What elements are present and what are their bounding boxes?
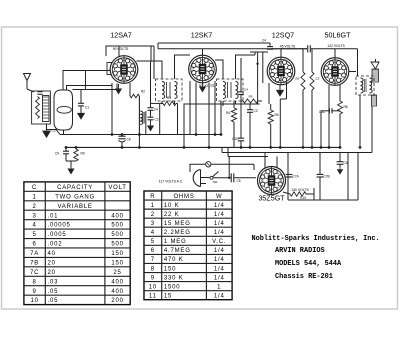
svg-text:1500: 1500 xyxy=(164,284,181,290)
svg-text:5: 5 xyxy=(33,232,37,238)
svg-text:20: 20 xyxy=(48,260,56,266)
svg-text:1/4: 1/4 xyxy=(214,257,225,263)
svg-text:.05: .05 xyxy=(48,298,59,304)
svg-text:C10: C10 xyxy=(232,137,238,141)
svg-text:.0005: .0005 xyxy=(48,232,67,238)
svg-text:8: 8 xyxy=(33,279,37,285)
svg-text:1/4: 1/4 xyxy=(214,266,225,272)
svg-text:15: 15 xyxy=(164,293,172,299)
svg-text:1/4: 1/4 xyxy=(214,230,225,236)
svg-text:1: 1 xyxy=(151,203,155,209)
svg-text:9: 9 xyxy=(33,289,37,295)
svg-text:90 VOLTS: 90 VOLTS xyxy=(113,47,129,51)
svg-text:12SK7: 12SK7 xyxy=(191,31,213,40)
svg-text:6: 6 xyxy=(33,242,37,248)
svg-text:1/4: 1/4 xyxy=(214,212,225,218)
svg-text:.00005: .00005 xyxy=(48,223,71,229)
svg-text:150: 150 xyxy=(164,266,176,272)
svg-text:.01: .01 xyxy=(48,213,59,219)
svg-text:3: 3 xyxy=(151,221,155,227)
svg-text:7C: 7C xyxy=(30,270,39,276)
svg-text:CAPACITY: CAPACITY xyxy=(57,185,93,191)
svg-text:R8: R8 xyxy=(343,105,347,109)
svg-text:8: 8 xyxy=(151,266,155,272)
svg-text:10: 10 xyxy=(30,298,38,304)
svg-text:150: 150 xyxy=(111,260,123,266)
svg-text:3: 3 xyxy=(33,213,37,219)
svg-text:1/4: 1/4 xyxy=(214,221,225,227)
svg-text:500: 500 xyxy=(111,232,123,238)
svg-text:Noblitt-Sparks Industries, Inc: Noblitt-Sparks Industries, Inc. xyxy=(252,235,380,243)
svg-text:12SQ7: 12SQ7 xyxy=(272,31,294,40)
svg-text:1/4: 1/4 xyxy=(214,203,225,209)
svg-text:2: 2 xyxy=(151,212,155,218)
svg-text:V.C.: V.C. xyxy=(212,239,226,245)
svg-text:11: 11 xyxy=(149,293,157,299)
svg-text:1/4: 1/4 xyxy=(214,275,225,281)
svg-text:R9: R9 xyxy=(80,152,84,156)
svg-text:45 VOLTS: 45 VOLTS xyxy=(280,45,296,49)
svg-text:6: 6 xyxy=(151,248,155,254)
svg-text:5: 5 xyxy=(151,239,155,245)
svg-text:SW: SW xyxy=(213,180,218,184)
svg-text:C9: C9 xyxy=(55,152,59,156)
svg-text:50L6GT: 50L6GT xyxy=(325,31,352,40)
svg-text:400: 400 xyxy=(111,289,123,295)
svg-text:C3: C3 xyxy=(253,109,257,113)
svg-text:W: W xyxy=(216,194,222,200)
svg-text:C: C xyxy=(32,185,37,191)
svg-text:122 VOLTS: 122 VOLTS xyxy=(327,44,345,48)
svg-text:VARIABLE: VARIABLE xyxy=(57,204,92,210)
svg-text:330 K: 330 K xyxy=(164,275,184,281)
svg-text:Chassis RE-201: Chassis RE-201 xyxy=(275,273,333,281)
svg-text:4.7MEG: 4.7MEG xyxy=(164,248,191,254)
svg-text:7B: 7B xyxy=(30,260,39,266)
svg-text:ARVIN RADIOS: ARVIN RADIOS xyxy=(275,247,325,255)
svg-text:C4: C4 xyxy=(262,39,266,43)
svg-text:C7A: C7A xyxy=(292,175,299,179)
svg-text:R10: R10 xyxy=(300,196,306,200)
svg-text:9: 9 xyxy=(151,275,155,281)
svg-text:C1: C1 xyxy=(85,106,89,110)
svg-text:R4: R4 xyxy=(226,111,230,115)
svg-text:TWO GANG: TWO GANG xyxy=(55,194,95,200)
svg-text:C4: C4 xyxy=(154,108,158,112)
svg-text:1: 1 xyxy=(217,284,221,290)
svg-text:22 K: 22 K xyxy=(164,212,180,218)
svg-text:2: 2 xyxy=(33,204,37,210)
svg-text:R7: R7 xyxy=(295,77,299,81)
svg-text:117 VOLTS A.C.: 117 VOLTS A.C. xyxy=(159,180,184,184)
svg-text:C7: C7 xyxy=(315,77,319,81)
svg-text:R5: R5 xyxy=(249,95,253,99)
svg-text:.05: .05 xyxy=(48,289,59,295)
svg-text:.002: .002 xyxy=(48,242,63,248)
svg-text:12SA7: 12SA7 xyxy=(110,31,132,40)
svg-text:20: 20 xyxy=(48,270,56,276)
svg-text:MODELS 544, 544A: MODELS 544, 544A xyxy=(275,260,342,268)
svg-text:40: 40 xyxy=(48,251,56,257)
svg-text:R2: R2 xyxy=(141,90,145,94)
svg-text:7A: 7A xyxy=(30,251,39,257)
svg-text:1/4: 1/4 xyxy=(214,293,225,299)
svg-text:15 MEG: 15 MEG xyxy=(164,221,191,227)
svg-text:2.2MEG: 2.2MEG xyxy=(164,230,191,236)
svg-text:R3: R3 xyxy=(167,96,171,100)
svg-text:1: 1 xyxy=(33,194,37,200)
svg-text:470 K: 470 K xyxy=(164,257,184,263)
svg-text:10: 10 xyxy=(149,284,157,290)
svg-text:C4: C4 xyxy=(244,88,248,92)
svg-text:4: 4 xyxy=(151,230,155,236)
svg-text:4: 4 xyxy=(33,223,37,229)
svg-text:R6: R6 xyxy=(274,113,278,117)
svg-text:7: 7 xyxy=(151,257,155,263)
svg-text:C6: C6 xyxy=(343,161,347,165)
svg-text:1/4: 1/4 xyxy=(214,248,225,254)
svg-text:150: 150 xyxy=(111,251,123,257)
svg-text:10 K: 10 K xyxy=(164,203,180,209)
svg-text:1 MEG: 1 MEG xyxy=(164,239,187,245)
svg-text:VOLT: VOLT xyxy=(108,185,126,191)
svg-text:200: 200 xyxy=(111,298,123,304)
svg-text:C8: C8 xyxy=(126,138,130,142)
svg-text:400: 400 xyxy=(111,279,123,285)
svg-text:C5: C5 xyxy=(236,179,240,183)
svg-text:500: 500 xyxy=(111,242,123,248)
svg-text:R: R xyxy=(150,194,155,200)
svg-text:C2: C2 xyxy=(154,118,158,122)
svg-text:.03: .03 xyxy=(48,279,59,285)
svg-text:400: 400 xyxy=(111,213,123,219)
svg-text:OHMS: OHMS xyxy=(173,194,194,200)
svg-text:500: 500 xyxy=(111,223,123,229)
svg-text:C7B: C7B xyxy=(323,175,329,179)
svg-text:25: 25 xyxy=(113,270,121,276)
